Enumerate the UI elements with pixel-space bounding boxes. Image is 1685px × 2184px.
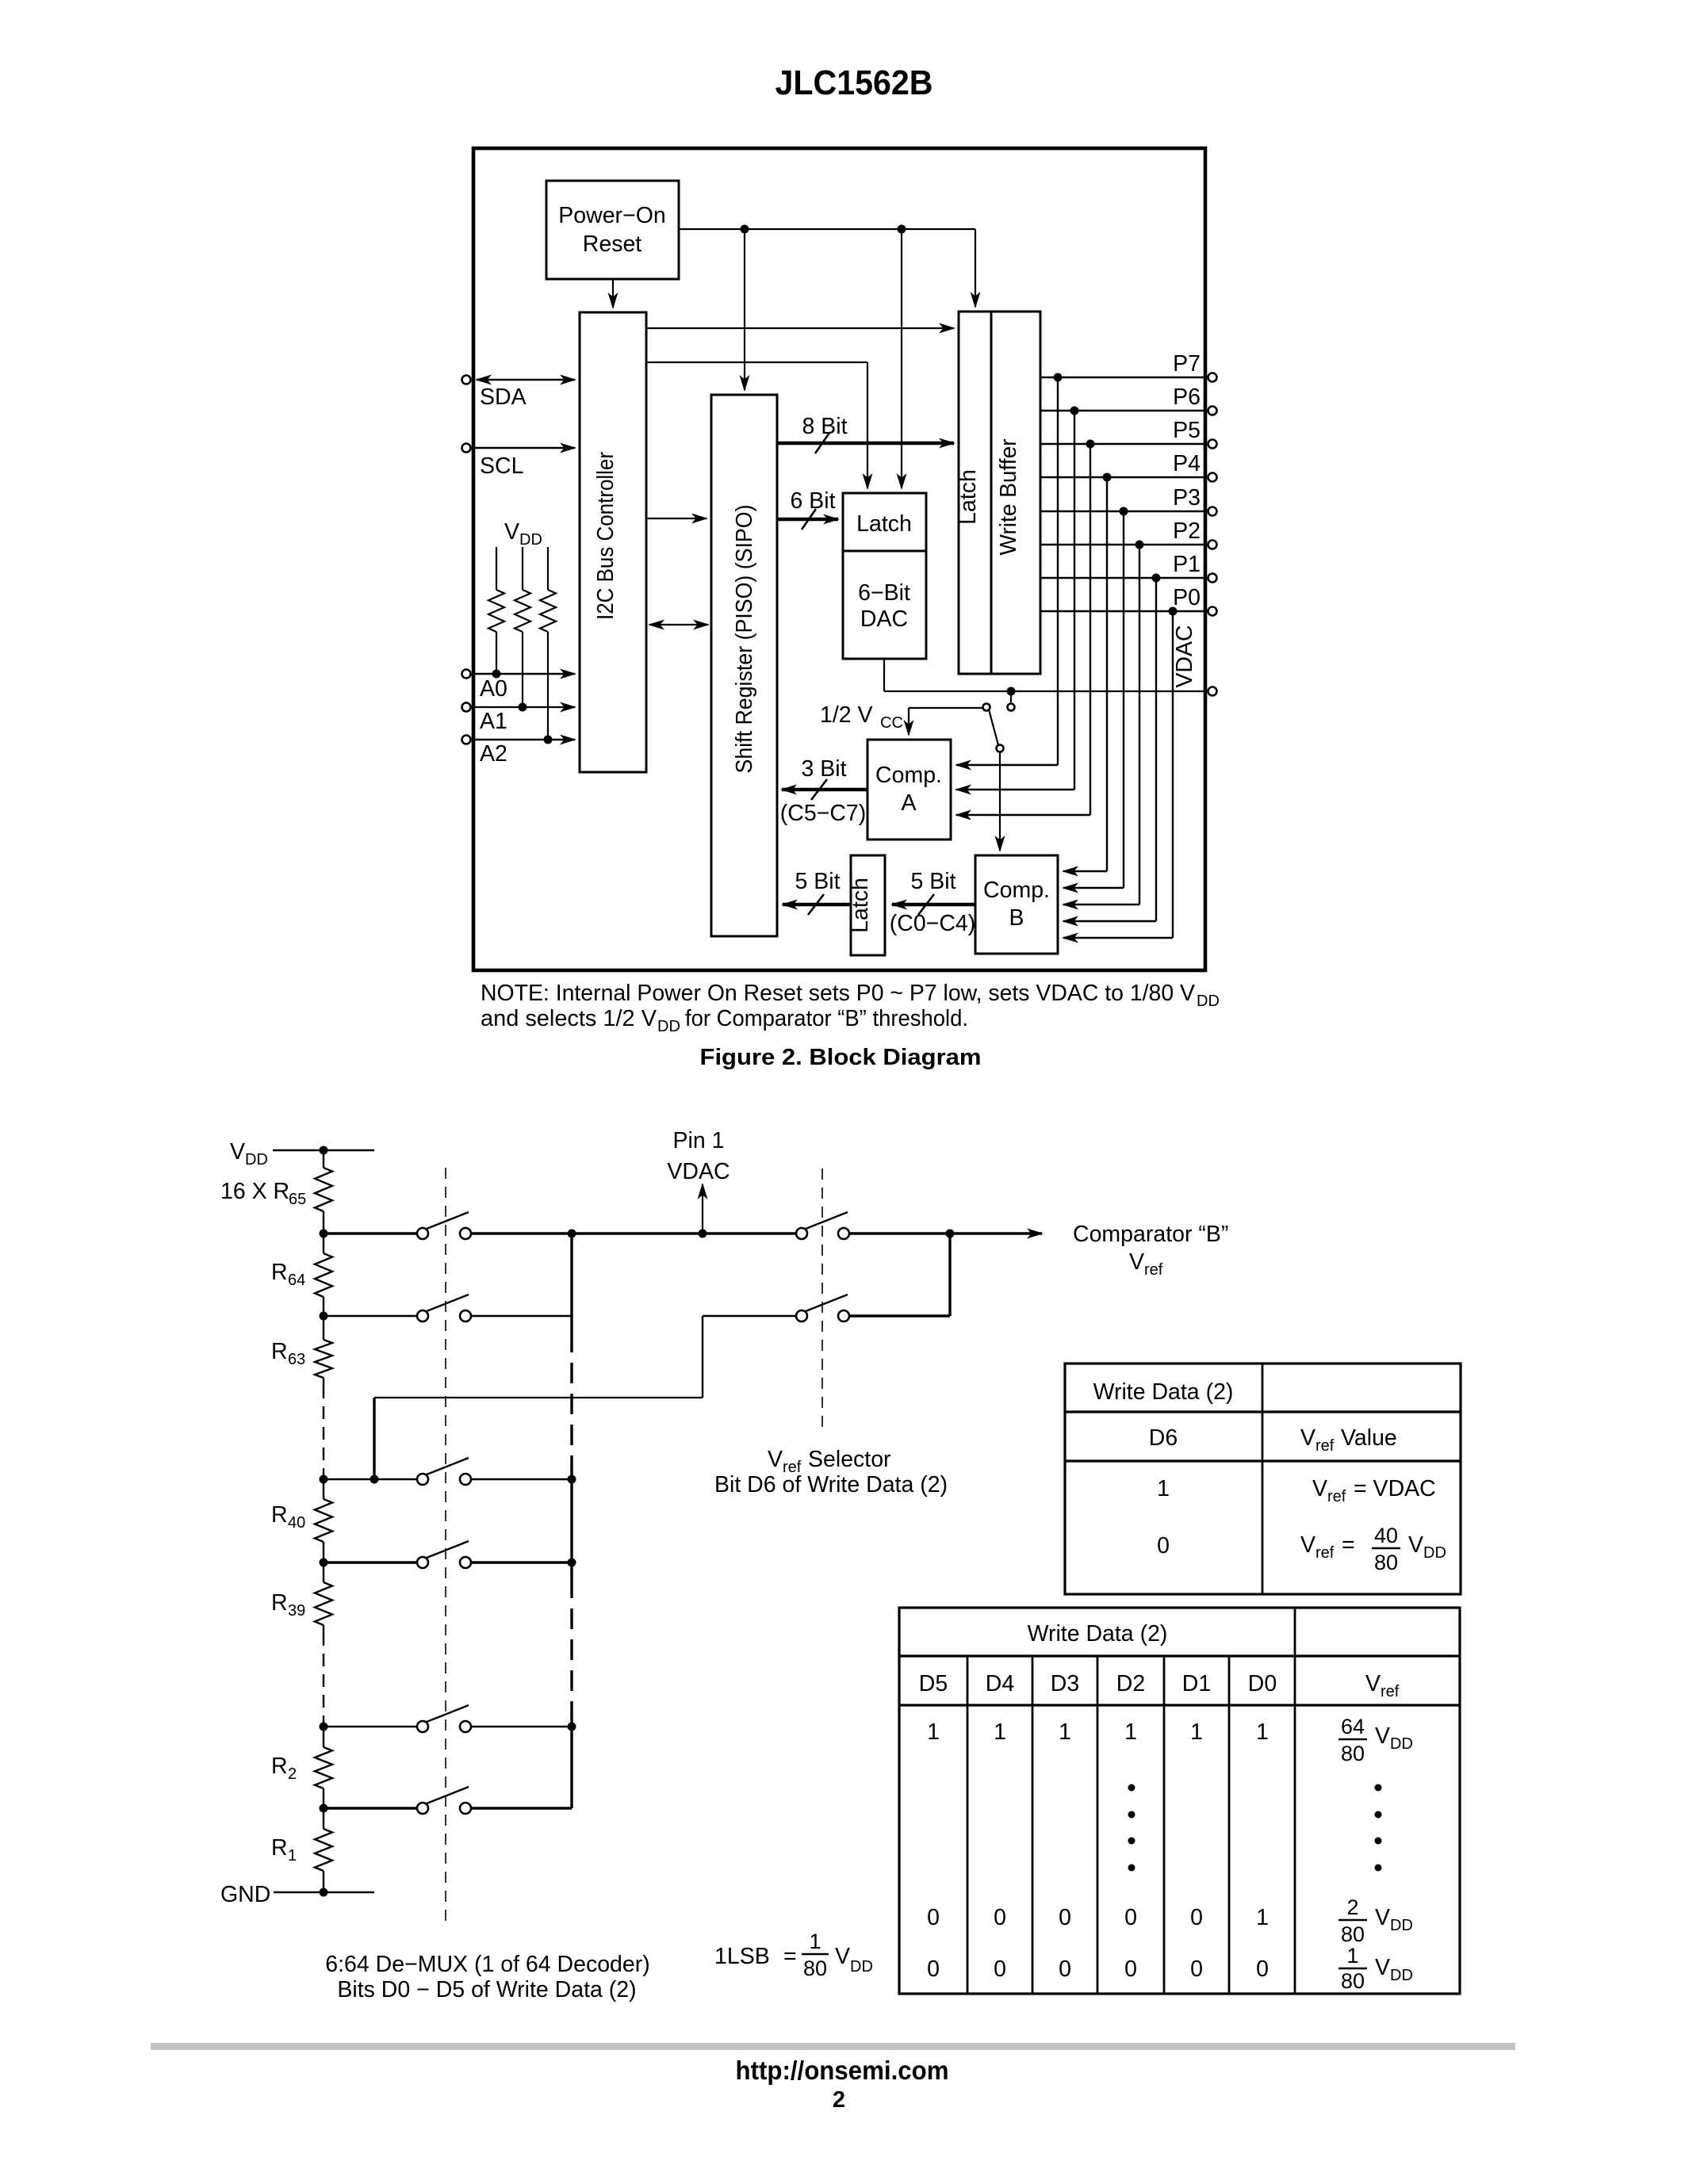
svg-text:1: 1 — [1157, 1476, 1170, 1501]
wire switch pole to Comp B — [999, 752, 1001, 851]
svg-text:0: 0 — [994, 1956, 1006, 1982]
pin VDAC — [1172, 625, 1217, 695]
pin SCL — [462, 444, 576, 480]
label de-mux caption — [325, 1952, 650, 2002]
svg-text:P3: P3 — [1173, 485, 1201, 511]
wire 1/2 Vcc to Comp A and switch — [909, 708, 983, 735]
svg-text:Bits D0 − D5 of Write Data (2): Bits D0 − D5 of Write Data (2) — [337, 1977, 636, 2002]
svg-text:ref: ref — [1315, 1544, 1335, 1562]
table D6 header Write Data (2) — [1093, 1379, 1234, 1405]
svg-text:6 Bit: 6 Bit — [790, 488, 835, 514]
svg-text:D3: D3 — [1051, 1671, 1079, 1696]
svg-text:P6: P6 — [1173, 384, 1201, 410]
pin A1 — [462, 703, 576, 735]
switch row5 de-mux — [324, 1705, 471, 1732]
svg-text:(C0−C4): (C0−C4) — [890, 911, 976, 936]
page title JLC1562B — [775, 63, 933, 102]
svg-text:1: 1 — [1256, 1905, 1269, 1930]
svg-text:Bit D6 of Write Data (2): Bit D6 of Write Data (2) — [714, 1472, 948, 1497]
junction row1 at bus — [568, 1230, 576, 1238]
svg-text:P5: P5 — [1173, 418, 1201, 443]
junction row1 at Pin1 VDAC — [699, 1230, 707, 1238]
block Power-On Reset — [546, 181, 679, 279]
pin P5 output line — [1040, 418, 1217, 449]
block Latch and Write Buffer — [955, 312, 1040, 674]
svg-text:64: 64 — [1341, 1715, 1365, 1738]
svg-text:ref: ref — [1144, 1261, 1163, 1279]
node ladder tap row 4 — [320, 1559, 328, 1567]
wire ladder omitted section 2 (dashed) — [323, 1633, 324, 1720]
wire 40/80 tap to row2 selector — [374, 1316, 796, 1479]
svg-text:V: V — [835, 1944, 850, 1969]
resistor R63 — [271, 1316, 332, 1386]
footer link — [736, 2056, 949, 2085]
wire controller to shift register — [646, 518, 707, 519]
svg-text:ref: ref — [1315, 1437, 1335, 1455]
wire row1 to selector — [471, 1232, 796, 1234]
node VDD of ladder — [230, 1139, 374, 1168]
wire row4 to bus — [471, 1561, 572, 1563]
svg-text:2: 2 — [1346, 1895, 1358, 1919]
wire Pin 1 VDAC output — [667, 1128, 730, 1234]
svg-text:Write Buffer: Write Buffer — [996, 438, 1021, 555]
resistor R64 — [271, 1234, 332, 1316]
svg-text:A2: A2 — [480, 741, 507, 767]
svg-text:Pin 1: Pin 1 — [673, 1128, 725, 1153]
svg-text:Value: Value — [1341, 1425, 1397, 1451]
pin A0 — [462, 670, 576, 702]
svg-text:63: 63 — [288, 1351, 305, 1368]
table write-data row 000000 — [927, 1944, 1413, 1993]
svg-text:DD: DD — [657, 1018, 680, 1035]
junction on POR net at latch branch — [898, 225, 906, 234]
bus 3 Bit Comp A to shift register (C5-C7) — [780, 756, 867, 826]
table D6 cell Vref = 40/80 VDD — [1300, 1524, 1446, 1574]
svg-text:0: 0 — [1190, 1905, 1203, 1930]
wire row3 to bus — [471, 1478, 572, 1480]
svg-text:Shift Register (PISO) (SIPO): Shift Register (PISO) (SIPO) — [732, 505, 757, 774]
svg-text:DD: DD — [1390, 1967, 1413, 1984]
svg-text:DD: DD — [1390, 1917, 1413, 1934]
resistor R40 — [271, 1479, 332, 1562]
svg-text:DD: DD — [850, 1958, 873, 1976]
table D6 cell Vref = VDAC — [1312, 1476, 1436, 1505]
svg-text:39: 39 — [288, 1602, 305, 1620]
resistor R65 (16 X R65) — [220, 1150, 332, 1234]
svg-text:A: A — [901, 790, 916, 816]
svg-text:V: V — [504, 519, 519, 545]
svg-text:DD: DD — [1423, 1544, 1446, 1562]
bus 8 Bit shift register to latch — [777, 414, 954, 453]
svg-text:1: 1 — [288, 1847, 297, 1865]
wire selector bus segment 4 (dashed) — [570, 1578, 573, 1712]
svg-text:DAC: DAC — [860, 606, 908, 632]
wire selector bus segment 2 (dashed) — [570, 1332, 573, 1467]
svg-text:5 Bit: 5 Bit — [795, 869, 840, 894]
switch row2 de-mux — [324, 1295, 471, 1321]
node ladder tap row 6 — [320, 1804, 328, 1813]
wire row2 selector to output node — [849, 1234, 950, 1316]
svg-text:Comp.: Comp. — [983, 878, 1050, 903]
svg-text:1: 1 — [1190, 1719, 1203, 1745]
svg-text:1: 1 — [1124, 1719, 1137, 1745]
figure caption — [700, 1045, 982, 1070]
svg-text:R: R — [271, 1590, 288, 1616]
svg-text:P2: P2 — [1173, 518, 1201, 544]
pin P3 output line — [1040, 485, 1217, 516]
table write-data ellipsis dots D2 column — [1128, 1784, 1135, 1872]
node ladder tap row 1 — [320, 1230, 328, 1238]
wire P0 feedback to Comp B input — [1063, 611, 1173, 938]
wire Power-On Reset output net — [679, 228, 975, 230]
node ladder tap row 3 — [320, 1473, 328, 1484]
svg-text:80: 80 — [803, 1956, 827, 1980]
svg-text:R: R — [271, 1260, 288, 1285]
switch row1 Vref selector — [796, 1212, 849, 1239]
table write-data row all ones — [927, 1715, 1413, 1765]
svg-text:B: B — [1009, 905, 1024, 931]
svg-text:8 Bit: 8 Bit — [802, 414, 847, 439]
junction VDAC net at threshold switch — [1007, 687, 1016, 696]
wire controller/shift register bidirectional — [649, 624, 708, 625]
svg-text:1: 1 — [809, 1930, 821, 1953]
bus 6 Bit shift register to DAC latch — [777, 488, 838, 530]
svg-text:VDAC: VDAC — [1172, 625, 1197, 687]
label 1/2 Vcc — [820, 702, 903, 732]
svg-text:A1: A1 — [480, 709, 507, 734]
svg-text:Selector: Selector — [808, 1447, 891, 1472]
table D6 column divider — [1262, 1364, 1264, 1594]
svg-text:Comparator “B”: Comparator “B” — [1073, 1222, 1228, 1247]
junction Vref output node — [946, 1230, 955, 1238]
wire Vref output arrow to Comparator B — [950, 1222, 1228, 1279]
svg-text:0: 0 — [1256, 1956, 1269, 1982]
wire Vref selector column (dashed) — [821, 1168, 823, 1429]
svg-text:0: 0 — [927, 1956, 940, 1982]
svg-text:GND: GND — [220, 1882, 270, 1907]
svg-text:DD: DD — [519, 531, 542, 549]
node ladder tap row 2 — [320, 1312, 328, 1321]
svg-text:0: 0 — [927, 1905, 940, 1930]
svg-text:P7: P7 — [1173, 351, 1201, 377]
svg-text:1/2 V: 1/2 V — [820, 702, 873, 728]
switch row3 de-mux — [324, 1458, 471, 1485]
svg-text:0: 0 — [1124, 1905, 1137, 1930]
svg-text:65: 65 — [289, 1191, 306, 1208]
svg-text:1: 1 — [994, 1719, 1006, 1745]
wire P4 feedback to Comp B input — [1063, 477, 1107, 871]
svg-text:D1: D1 — [1182, 1671, 1211, 1696]
svg-text:V: V — [1375, 1955, 1390, 1980]
wire P3 feedback to Comp B input — [1063, 511, 1124, 888]
table D6 column header Vref Value — [1300, 1425, 1397, 1455]
svg-text:0: 0 — [1059, 1956, 1071, 1982]
node VDD supply label — [504, 519, 542, 549]
pin SDA — [462, 376, 576, 411]
block diagram outer boundary — [473, 148, 1205, 970]
svg-text:http://onsemi.com: http://onsemi.com — [736, 2056, 949, 2085]
svg-text:= VDAC: = VDAC — [1354, 1476, 1436, 1501]
svg-text:1: 1 — [927, 1719, 940, 1745]
svg-text:R: R — [271, 1835, 288, 1861]
bus 5 Bit Comp B to latch (C0-C4) — [890, 869, 976, 936]
pin P2 output line — [1040, 518, 1217, 549]
svg-text:80: 80 — [1341, 1742, 1365, 1765]
wire POR to write buffer latch top — [975, 229, 976, 307]
block I2C Bus Controller U1 — [580, 312, 646, 772]
svg-text:V: V — [230, 1139, 245, 1165]
node ladder tap row 5 — [320, 1720, 328, 1731]
svg-text:and selects 1/2 V: and selects 1/2 V — [481, 1006, 657, 1031]
resistor R39 — [271, 1562, 332, 1633]
svg-text:D2: D2 — [1116, 1671, 1145, 1696]
table D6 cell value 1 — [1157, 1476, 1170, 1501]
block Comp. B comparator — [975, 855, 1058, 954]
switch row1 de-mux — [324, 1212, 471, 1239]
pin A2 — [462, 736, 576, 767]
svg-text:Figure 2. Block Diagram: Figure 2. Block Diagram — [700, 1045, 982, 1070]
table D6 selection outer — [1065, 1364, 1461, 1594]
pin P6 output line — [1040, 384, 1217, 415]
svg-text:80: 80 — [1374, 1551, 1398, 1574]
wire POR to latch top — [901, 229, 902, 488]
svg-text:DD: DD — [1390, 1735, 1413, 1753]
switch row4 de-mux — [324, 1541, 471, 1568]
table D6 cell value 0 — [1157, 1533, 1170, 1559]
svg-text:80: 80 — [1341, 1922, 1365, 1946]
pin P1 output line — [1040, 552, 1217, 583]
svg-text:0: 0 — [994, 1905, 1006, 1930]
svg-text:0: 0 — [1124, 1956, 1137, 1982]
svg-text:6−Bit: 6−Bit — [858, 580, 910, 606]
table D6 column header D6 — [1149, 1425, 1178, 1451]
ground GND — [220, 1882, 374, 1907]
wire row2 to bus — [471, 1315, 572, 1317]
svg-text:D4: D4 — [986, 1671, 1015, 1696]
svg-text:SDA: SDA — [480, 384, 527, 410]
svg-text:=: = — [1342, 1532, 1355, 1558]
wire controller to latch/write-buffer — [646, 327, 954, 329]
wire P5 feedback to Comp A input — [956, 444, 1090, 815]
block Shift Register (PISO) (SIPO) — [711, 395, 777, 936]
svg-text:Write Data (2): Write Data (2) — [1093, 1379, 1234, 1405]
svg-text:P1: P1 — [1173, 552, 1201, 577]
svg-text:2: 2 — [833, 2087, 845, 2113]
svg-text:CC: CC — [880, 714, 903, 732]
bus 5 Bit latch to shift register — [783, 869, 851, 915]
svg-text:R: R — [271, 1754, 288, 1779]
svg-text:ref: ref — [1381, 1683, 1400, 1700]
svg-text:1: 1 — [1059, 1719, 1071, 1745]
footer separator bar — [151, 2043, 1515, 2050]
switch row2 Vref selector — [796, 1295, 849, 1321]
table write-data outer — [899, 1608, 1460, 1994]
block Comp. A comparator — [867, 740, 951, 840]
svg-text:I2C Bus Controller: I2C Bus Controller — [593, 452, 618, 620]
block Latch (5-bit) — [848, 855, 885, 955]
junction row5 at bus — [568, 1723, 576, 1731]
block Latch over 6-Bit DAC — [843, 493, 926, 659]
svg-text:64: 64 — [288, 1272, 305, 1289]
label 1LSB formula — [714, 1930, 873, 1980]
svg-text:40: 40 — [1374, 1524, 1398, 1547]
wire row1 selector to output node — [849, 1232, 950, 1234]
svg-text:JLC1562B: JLC1562B — [775, 63, 933, 102]
table write-data column dividers — [967, 1656, 1229, 1994]
svg-text:V: V — [1312, 1476, 1327, 1501]
svg-text:2: 2 — [288, 1765, 297, 1783]
table write-data header row line — [899, 1654, 1460, 1657]
note text line 1 — [481, 981, 1220, 1010]
svg-text:DD: DD — [1197, 993, 1220, 1010]
svg-text:V: V — [1129, 1249, 1144, 1275]
resistor R1 — [271, 1808, 332, 1892]
svg-text:0: 0 — [1157, 1533, 1170, 1559]
wire P7 feedback to Comp A input — [956, 377, 1058, 765]
switch SW1 threshold selector — [983, 691, 1015, 752]
svg-text:V: V — [1375, 1723, 1390, 1749]
table write-data column headers — [919, 1671, 1400, 1700]
svg-text:6:64 De−MUX (1 of 64 Decoder): 6:64 De−MUX (1 of 64 Decoder) — [325, 1952, 650, 1977]
svg-text:R: R — [271, 1502, 288, 1528]
pin P0 output line — [1040, 585, 1217, 616]
svg-text:V: V — [768, 1447, 783, 1472]
svg-text:1: 1 — [1346, 1944, 1358, 1968]
wire ladder omitted section (dashed) — [323, 1386, 324, 1473]
wire selector bus segment 1 — [570, 1234, 573, 1332]
wire row5 to bus — [471, 1726, 572, 1727]
svg-text:Latch: Latch — [955, 469, 981, 525]
svg-text:P4: P4 — [1173, 451, 1201, 476]
junction on POR net at shift register branch — [741, 225, 749, 234]
junction row3 tap extra — [370, 1475, 379, 1484]
svg-text:D5: D5 — [919, 1671, 948, 1696]
svg-text:Latch: Latch — [848, 878, 873, 933]
resistor pull-up RP3 — [540, 547, 556, 740]
table write-data header Write Data (2) — [1028, 1621, 1168, 1647]
svg-text:P0: P0 — [1173, 585, 1201, 610]
table write-data ellipsis dots Vref column — [1375, 1784, 1382, 1872]
wire P2 feedback to Comp B input — [1063, 545, 1139, 905]
resistor pull-up RP1 — [488, 547, 504, 674]
svg-text:SCL: SCL — [480, 453, 523, 479]
svg-text:40: 40 — [288, 1514, 305, 1532]
svg-text:VDAC: VDAC — [667, 1159, 730, 1184]
svg-text:80: 80 — [1341, 1969, 1365, 1993]
wire POR to shift register top — [744, 229, 745, 390]
svg-text:R: R — [271, 1339, 288, 1364]
note text line 2 — [481, 1006, 968, 1035]
svg-text:0: 0 — [1059, 1905, 1071, 1930]
svg-text:(C5−C7): (C5−C7) — [780, 801, 867, 826]
pin P7 output line — [1040, 351, 1217, 382]
junction row4 at bus — [568, 1559, 576, 1567]
svg-text:NOTE: Internal Power On Reset: NOTE: Internal Power On Reset sets P0 ~ … — [481, 981, 1195, 1006]
svg-text:Write Data (2): Write Data (2) — [1028, 1621, 1168, 1647]
svg-text:=: = — [783, 1944, 797, 1969]
svg-text:D6: D6 — [1149, 1425, 1178, 1451]
table write-data Vref column divider — [1294, 1608, 1296, 1994]
svg-text:A0: A0 — [480, 676, 507, 702]
wire P1 feedback to Comp B input — [1063, 578, 1156, 921]
resistor R2 — [271, 1727, 332, 1808]
resistor pull-up RP2 — [515, 547, 530, 707]
label Vref Selector — [714, 1447, 948, 1497]
svg-text:3 Bit: 3 Bit — [801, 756, 846, 782]
wire DAC output to VDAC pin — [884, 659, 1205, 691]
wire P6 feedback to Comp A input — [956, 411, 1074, 790]
svg-text:V: V — [1300, 1425, 1315, 1451]
svg-text:D0: D0 — [1248, 1671, 1277, 1696]
svg-text:16 X R: 16 X R — [220, 1179, 289, 1204]
svg-text:0: 0 — [1190, 1956, 1203, 1982]
pin P4 output line — [1040, 451, 1217, 482]
wire selector bus segment 3 — [570, 1467, 573, 1578]
svg-text:Comp.: Comp. — [875, 763, 942, 788]
svg-text:1LSB: 1LSB — [714, 1944, 770, 1969]
table write-data subheader row line — [899, 1704, 1460, 1706]
wire de-mux selector column (dashed) — [445, 1168, 446, 1929]
svg-text:1: 1 — [1256, 1719, 1269, 1745]
table D6 subheader row line — [1065, 1459, 1461, 1462]
svg-text:for Comparator “B” threshold.: for Comparator “B” threshold. — [685, 1006, 968, 1031]
svg-text:5 Bit: 5 Bit — [910, 869, 955, 894]
wire controller to DAC latch — [646, 362, 867, 488]
wire selector bus segment 5 — [570, 1712, 573, 1808]
wire row6 to bus — [471, 1807, 572, 1809]
switch row6 de-mux — [324, 1787, 471, 1814]
svg-text:Reset: Reset — [583, 231, 642, 257]
table write-data row 000001 — [927, 1895, 1413, 1946]
footer page number — [833, 2087, 845, 2113]
table D6 header row line — [1065, 1410, 1461, 1413]
svg-text:ref: ref — [1327, 1488, 1346, 1505]
svg-text:Power−On: Power−On — [558, 203, 665, 228]
svg-text:V: V — [1300, 1532, 1315, 1558]
svg-text:V: V — [1408, 1532, 1423, 1558]
svg-text:Latch: Latch — [856, 511, 912, 537]
svg-text:V: V — [1375, 1905, 1390, 1930]
wire POR down to I2C controller — [612, 279, 614, 308]
junction row3 at bus — [568, 1475, 576, 1484]
svg-text:V: V — [1365, 1671, 1381, 1696]
svg-text:DD: DD — [245, 1151, 268, 1168]
